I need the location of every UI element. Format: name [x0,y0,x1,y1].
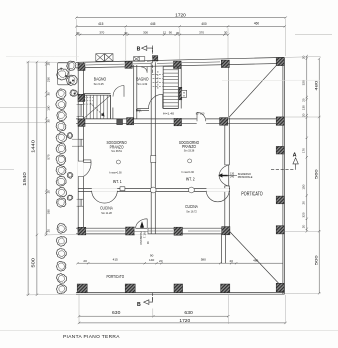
svg-text:20: 20 [302,201,306,205]
column P6 [78,94,85,101]
svg-text:20: 20 [229,259,233,263]
diagonal: bottom-right porticato [229,231,281,286]
column P7 [78,119,85,126]
column P19 [276,283,284,292]
svg-text:20: 20 [302,98,306,102]
svg-text:20: 20 [302,225,306,229]
svg-text:330: 330 [47,209,51,214]
tree at 61,192 [56,188,66,197]
svg-text:630: 630 [112,310,121,315]
arrow: main entrance [218,173,227,177]
column P15 [222,227,230,235]
column P8 [127,118,134,125]
dim right line A [306,56,308,231]
wall: right of stairwell2 [178,62,181,109]
column P13 [126,227,135,235]
column P23 [221,284,230,293]
stairs INT1 [83,95,110,119]
wall: below right wall in bottom porticato [222,234,226,264]
opening right wall main door [224,165,229,186]
svg-text:1720: 1720 [175,12,186,18]
svg-text:130: 130 [302,105,306,110]
extension lines top [76,19,285,61]
window top wall twin-box bagno1 [96,54,113,62]
svg-text:Sm 16.72: Sm 16.72 [186,209,197,213]
svg-text:460: 460 [254,22,260,26]
svg-text:12: 12 [163,31,167,35]
stairs INT2 [163,67,178,109]
svg-text:1440: 1440 [30,139,35,153]
svg-text:B: B [137,46,141,52]
svg-text:PORTICATO: PORTICATO [241,191,262,197]
svg-text:20: 20 [47,62,51,66]
svg-text:BAGNO: BAGNO [94,76,107,81]
svg-text:90: 90 [169,31,173,35]
svg-text:INGRESSO: INGRESSO [139,231,142,244]
window left wall cucina [77,199,84,206]
door rip [149,94,163,108]
svg-text:INT. 2: INT. 2 [186,176,195,182]
tree at 62,289 [57,284,67,293]
svg-text:30: 30 [47,92,51,96]
svg-text:20: 20 [302,55,306,59]
wall: bagno1/bagno2 divider [134,65,137,119]
tree at 62,278 [57,274,67,284]
door double cucina1 [92,191,118,203]
window bottom wall 2 [149,230,174,232]
opening wall121 corridor2 door [197,119,206,125]
column P18 [276,226,284,234]
dark block above top wall at B line [153,56,158,61]
svg-text:1720: 1720 [179,318,190,323]
section B bottom [137,293,153,308]
svg-text:480: 480 [313,80,318,91]
tree at 61,126 [56,121,66,131]
svg-text:B: B [137,302,141,308]
svg-text:h max=1.90: h max=1.90 [182,170,195,174]
jamb lines bottom door [133,228,135,234]
opening left wall door [78,161,84,177]
tree at 61,182 [56,176,66,186]
column round on wall190 [150,187,156,193]
svg-text:M: M [183,93,185,95]
svg-text:370: 370 [199,30,204,34]
tree at 62,266 [57,261,66,271]
svg-text:190: 190 [47,105,51,110]
wall: top exterior (sloped scan) [76,57,284,68]
line: porticato step edge right [230,262,283,264]
svg-text:PRINCIPALE: PRINCIPALE [238,176,253,179]
tree at 62,241 [56,237,66,247]
svg-text:570: 570 [47,154,51,159]
column P21 [125,284,135,293]
dim texts left segments [47,62,51,233]
column P10 [220,118,228,126]
wall: Rip north segment [137,109,149,111]
svg-text:Rip.: Rip. [136,108,142,112]
svg-text:150: 150 [302,184,306,189]
svg-text:Sm 11.28: Sm 11.28 [101,211,112,215]
column P1 [78,64,85,71]
column P14 [174,227,182,235]
column P17 [276,196,284,204]
dim texts row3 [76,30,227,34]
svg-text:500: 500 [30,257,35,267]
svg-text:INT. 1: INT. 1 [143,231,146,238]
jamb lines left door [78,160,84,162]
svg-text:20: 20 [47,190,51,194]
dim top row2 [76,25,284,27]
svg-text:1940: 1940 [22,171,27,185]
column P9 [174,118,182,125]
svg-text:445: 445 [150,22,156,26]
dim porticato inner [78,262,237,264]
dim bottom row2 [79,322,286,324]
dim left line segments [45,62,47,235]
door bottom entrance INT1 quarter [136,219,148,229]
svg-text:170: 170 [302,148,306,153]
small rect element on wall190 [120,187,125,191]
line: top-right corner inner vertical [228,65,230,118]
svg-text:580: 580 [201,258,206,262]
svg-text:INT. 1: INT. 1 [113,179,122,185]
opening wall190 cucina2 [206,188,229,192]
extension lines bottom [79,295,285,324]
dim texts bottom rows [112,310,193,323]
svg-text:210: 210 [200,112,205,115]
dim left line 1440/500 [36,62,38,295]
window left wall soggiorno [72,139,83,146]
wall: bagno1 south (above stairs1) [83,94,110,96]
svg-text:Sm 33.36: Sm 33.36 [184,148,195,152]
svg-text:30: 30 [47,119,51,123]
column P4 [221,60,229,67]
svg-text:CUCINA: CUCINA [100,205,113,210]
svg-text:560: 560 [313,168,318,179]
tree at 71,66 [67,61,76,70]
svg-text:140: 140 [149,258,154,262]
tree at 74,93 [70,90,77,97]
column P11 [276,117,284,125]
svg-text:20: 20 [302,113,306,117]
wall: divider INT1/INT2 [151,62,155,234]
svg-text:630: 630 [184,310,193,315]
door double cucina2 [206,191,229,202]
symbol circle sogg2 [188,159,192,163]
svg-text:90: 90 [150,254,154,258]
tree at 61,116 [57,111,67,121]
wall: interior y121 full width [76,119,284,124]
dim texts right B [313,80,318,266]
extension lines right [222,35,332,294]
tree at 61,148 [56,144,66,154]
svg-text:20: 20 [47,229,51,233]
svg-text:H=1.40: H=1.40 [163,111,174,115]
column P12 [78,227,86,235]
tree at 61,160 [56,155,66,165]
svg-text:480: 480 [253,259,258,263]
arrow: bottom entrance INT1 [140,221,144,228]
small rect on divider wall [151,156,156,163]
wall: porticato right edge [283,57,285,294]
wall: stairwell2 left edge [162,67,164,109]
door main entrance leaves [219,165,229,175]
column P16 [276,146,284,154]
tree at 72,80 [66,75,77,85]
jamb lines main door [225,164,230,166]
svg-text:415: 415 [113,258,118,262]
door left wall sogg1 [84,161,91,176]
shaft beside stairs2 [179,87,182,100]
svg-text:Sm 38.51: Sm 38.51 [111,149,122,153]
dim top row1 1720 [76,17,285,19]
faint rule above title [0,330,338,332]
svg-text:230: 230 [47,77,51,82]
wall: stairwell2 bottom edge [163,108,178,110]
tree at 61,202 [56,198,65,207]
stairs INT2 dashed landing treads [153,71,164,90]
svg-text:500: 500 [313,254,318,265]
dim right line B [318,59,320,294]
svg-text:PORTICATO: PORTICATO [107,274,125,279]
opening wall190 cucina1 [92,188,117,192]
svg-text:30: 30 [124,31,128,35]
wall: porticato bottom edge [76,293,284,295]
svg-text:20: 20 [83,259,87,263]
opening bottom wall door INT1 [134,228,148,235]
tree at 61,138 [56,133,67,143]
wall: stairs1 right corridor wall [111,95,113,119]
svg-text:30: 30 [176,31,180,35]
dim top row3 [76,34,228,36]
column P20 [77,284,87,293]
svg-text:CUCINA: CUCINA [185,204,198,209]
svg-text:320: 320 [302,212,306,217]
column P22 [174,284,183,293]
svg-text:320: 320 [302,80,306,85]
svg-text:30: 30 [224,31,228,35]
window bottom wall 1 [87,230,125,232]
column P5 [276,58,284,66]
wall: bottom exterior y228-234 [76,228,230,234]
tree at 61,170 [56,166,66,176]
svg-text:400: 400 [201,22,207,26]
wall: interior y190 [78,189,230,192]
section A right [271,153,298,170]
wall: right exterior of building [225,118,230,234]
tree at 61,104 [56,99,66,109]
door bagno1 [113,86,124,97]
dim left line 1940 [27,62,29,295]
window bottom wall 3 [188,230,221,232]
svg-text:A: A [293,153,297,159]
svg-text:PIANTA PIANO TERRA: PIANTA PIANO TERRA [63,334,120,340]
svg-text:Sm 6.25: Sm 6.25 [94,82,104,86]
tree at 62,254 [56,248,66,258]
diagonal: top-right open corner [229,64,278,117]
svg-text:h max=1.90: h max=1.90 [109,170,122,174]
leader line ingresso [227,175,237,177]
window top wall twin-box bagno2 [134,57,145,62]
column P3 [174,61,182,68]
tree marks [60,68,63,71]
bush at 70,136 [67,132,72,138]
svg-text:415: 415 [98,22,104,26]
extension lines left [0,62,76,295]
door bagno2 top [141,67,147,73]
svg-text:20: 20 [159,259,163,263]
column P2 [125,61,132,68]
dark block on wall121 [117,119,123,125]
tree at 62,228 [57,223,66,233]
door corridor2 at wall121 [197,112,206,121]
tree at 61,94 [56,89,66,99]
bush at 70,175 [67,172,73,178]
svg-text:370: 370 [99,31,104,35]
svg-text:Sm 4.32: Sm 4.32 [137,82,147,86]
planter box top-left [58,63,69,85]
faint scan line top-left [6,55,79,57]
svg-text:240: 240 [230,176,235,179]
svg-text:300: 300 [143,31,148,35]
window left wall upper [77,104,84,116]
section B top [137,46,159,76]
symbol circle sogg1 [116,160,120,164]
svg-text:BAGNO: BAGNO [136,76,149,81]
tree at 62,74 [57,68,69,80]
wall: left exterior [78,62,83,234]
dim bottom row1 [79,315,228,317]
svg-text:30: 30 [76,31,80,35]
bush at 70,198 [67,195,73,200]
